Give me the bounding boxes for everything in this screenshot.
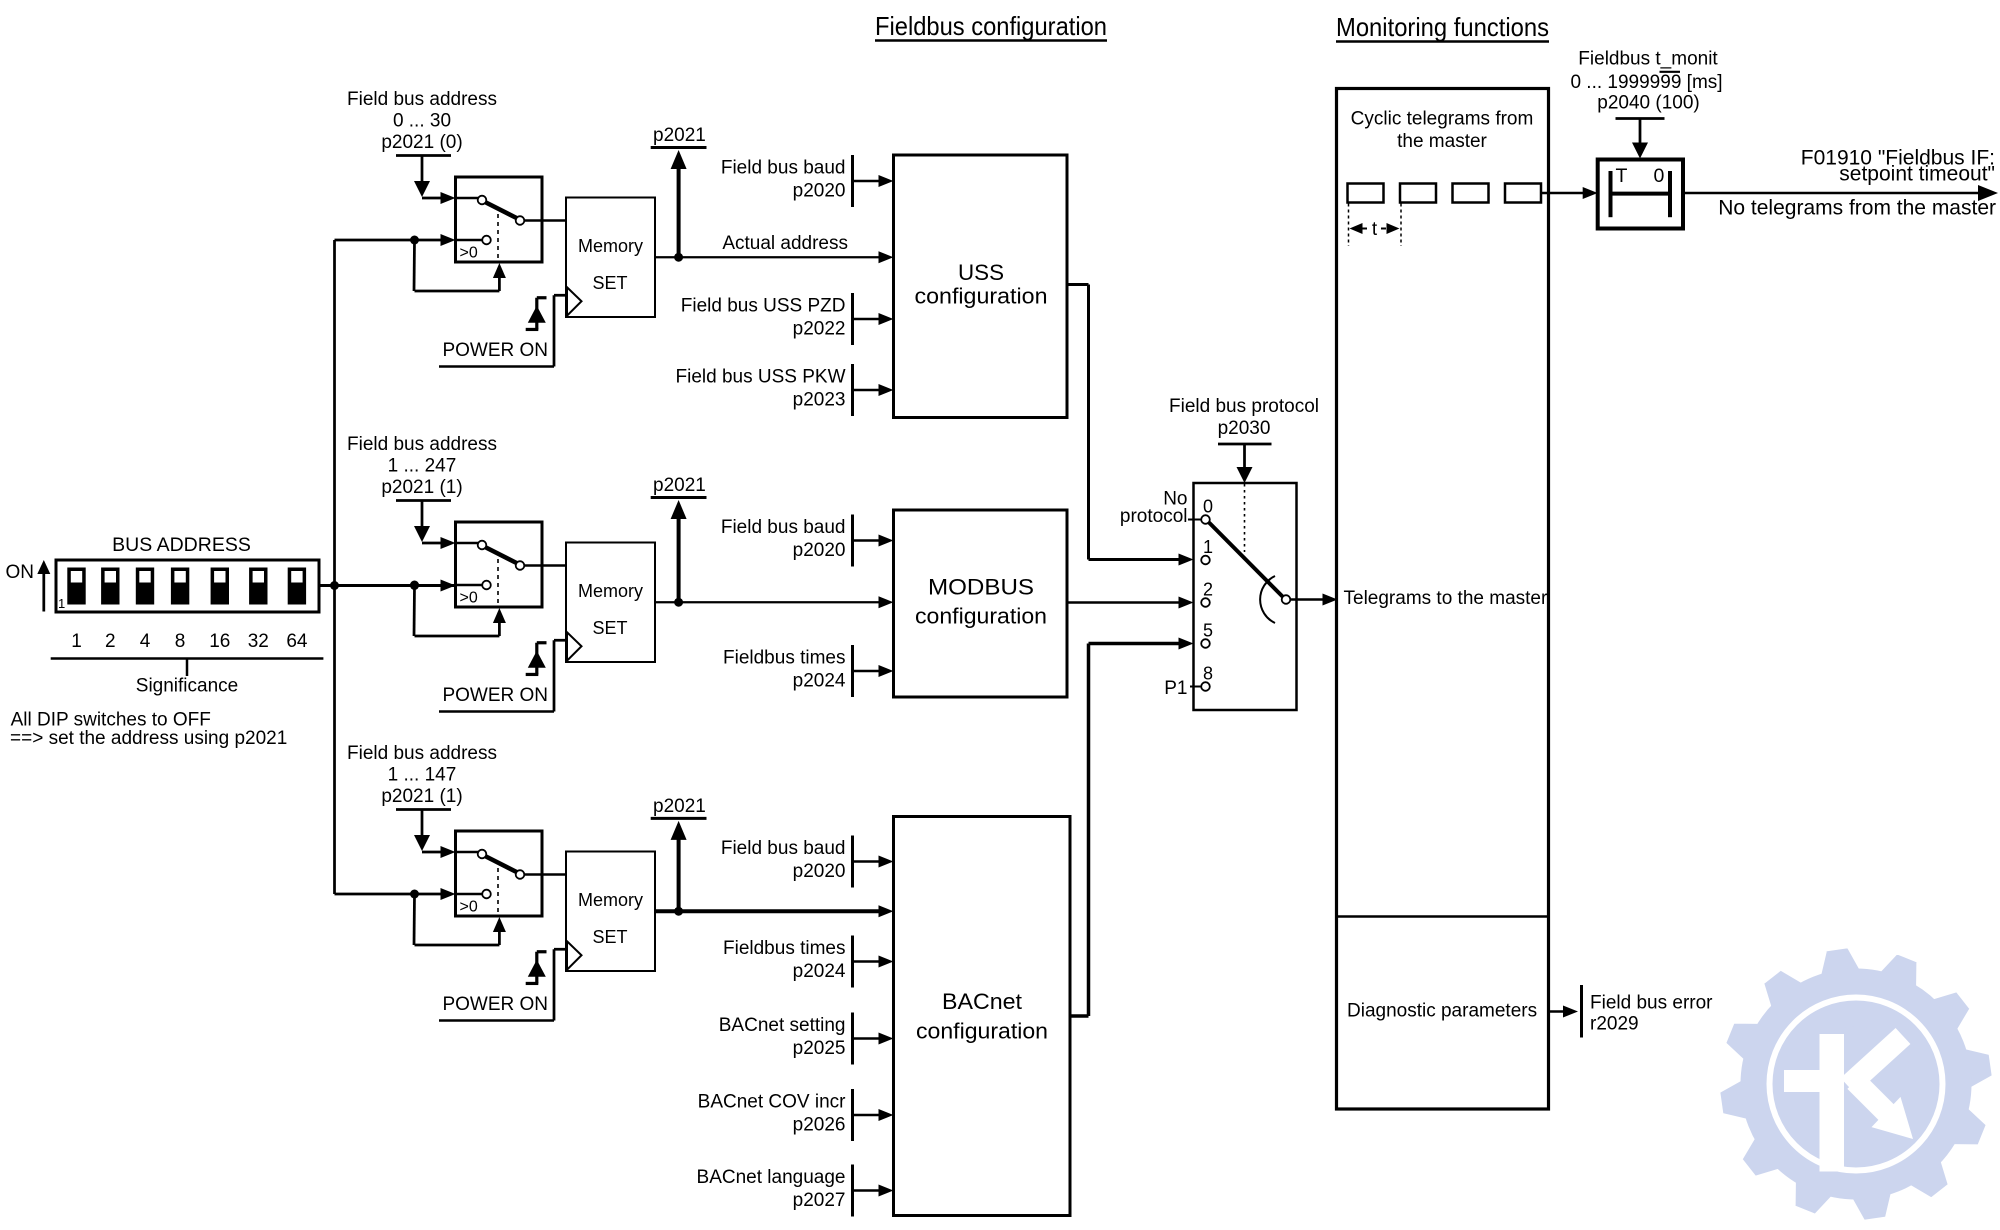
wire selector output to monitoring bbox=[1290, 594, 1337, 606]
node Field-bus-address label 3 bbox=[347, 743, 497, 810]
svg-text:p2025: p2025 bbox=[793, 1038, 846, 1059]
svg-text:p2021 (1): p2021 (1) bbox=[381, 786, 462, 807]
wire MODBUS output to protocol selector pin 2 bbox=[1067, 597, 1194, 609]
svg-text:p2027: p2027 bbox=[793, 1190, 846, 1211]
switch S4 protocol selector box bbox=[1194, 483, 1297, 710]
node Fieldbus t_monit p2040 label bbox=[1570, 49, 1722, 119]
wire DIP output bus bbox=[319, 584, 456, 587]
svg-text:MODBUS: MODBUS bbox=[928, 575, 1034, 600]
svg-text:Memory: Memory bbox=[578, 236, 643, 256]
svg-text:8: 8 bbox=[1203, 664, 1213, 684]
svg-text:1 ... 147: 1 ... 147 bbox=[388, 765, 457, 786]
node p2021 readback label 3 bbox=[651, 796, 707, 818]
node Significance bracket bbox=[51, 659, 324, 697]
node input Field bus USS PKW p2023 bbox=[676, 364, 894, 416]
switch S2 address-source selector bbox=[456, 522, 567, 607]
svg-text:Telegrams to the master: Telegrams to the master bbox=[1344, 588, 1548, 609]
wire p2040 into timer bbox=[1632, 119, 1648, 159]
svg-text:SET: SET bbox=[592, 927, 627, 947]
svg-text:p2020: p2020 bbox=[793, 540, 846, 561]
node input BACnet setting p2025 bbox=[719, 1013, 894, 1065]
switch S3 address-source selector bbox=[456, 831, 567, 916]
svg-text:protocol: protocol bbox=[1120, 506, 1188, 527]
node input Field bus baud p2020 (BACnet) bbox=[721, 836, 894, 888]
svg-text:configuration: configuration bbox=[916, 1019, 1048, 1044]
svg-text:16: 16 bbox=[209, 631, 230, 652]
svg-text:p2020: p2020 bbox=[793, 861, 846, 882]
svg-text:64: 64 bbox=[286, 631, 308, 652]
svg-text:BUS ADDRESS: BUS ADDRESS bbox=[112, 534, 251, 556]
node POWER ON 1 bbox=[439, 295, 566, 366]
wire p2030 into selector bbox=[1237, 444, 1253, 483]
wire control branch POWER-ON set 2 bbox=[414, 585, 506, 636]
svg-text:0 ... 1999999 [ms]: 0 ... 1999999 [ms] bbox=[1570, 72, 1722, 93]
wire timer fault output F01910 bbox=[1683, 185, 1998, 201]
wire bus to subcircuit 3 input bbox=[335, 888, 456, 900]
svg-text:p2024: p2024 bbox=[793, 961, 846, 982]
svg-text:>0: >0 bbox=[460, 245, 478, 262]
svg-text:2: 2 bbox=[1203, 580, 1213, 600]
node No protocol label bbox=[1120, 489, 1201, 528]
svg-text:1: 1 bbox=[1203, 537, 1213, 557]
svg-text:p2021: p2021 bbox=[653, 125, 706, 146]
svg-text:==> set the address using p202: ==> set the address using p2021 bbox=[10, 728, 287, 749]
power rising-edge symbol 1 bbox=[526, 298, 547, 330]
svg-text:configuration: configuration bbox=[915, 604, 1047, 629]
svg-text:BACnet COV incr: BACnet COV incr bbox=[698, 1092, 846, 1113]
node F01910 Fieldbus IF setpoint timeout label bbox=[1801, 147, 1995, 186]
node monitoring divider bbox=[1337, 915, 1549, 918]
junction memory output p2021 2 bbox=[674, 598, 683, 607]
junction control branch 2 bbox=[410, 581, 419, 590]
memory U3 Memory SET block bbox=[566, 852, 655, 972]
block U4 USS configuration bbox=[894, 155, 1068, 418]
svg-text:Significance: Significance bbox=[136, 676, 238, 697]
svg-text:0: 0 bbox=[1654, 165, 1665, 187]
block U7 monitoring functions bbox=[1337, 89, 1549, 1110]
svg-text:BACnet setting: BACnet setting bbox=[719, 1015, 846, 1036]
switch S1 address-source selector bbox=[456, 177, 567, 262]
svg-text:Fieldbus configuration: Fieldbus configuration bbox=[875, 11, 1107, 41]
node Field-bus-address label 2 bbox=[347, 434, 497, 501]
svg-text:Memory: Memory bbox=[578, 890, 643, 910]
svg-text:Field bus baud: Field bus baud bbox=[721, 517, 846, 538]
wire memory 2 output bbox=[655, 596, 894, 608]
node input Field bus USS PZD p2022 bbox=[681, 293, 894, 345]
power rising-edge symbol 2 bbox=[526, 643, 547, 675]
node Diagnostic parameters label bbox=[1347, 1001, 1537, 1022]
junction memory output p2021 3 bbox=[674, 907, 683, 916]
node Field bus error r2029 label bbox=[1590, 993, 1713, 1035]
node p2021 readback label 2 bbox=[651, 475, 707, 498]
junction control branch 1 bbox=[410, 236, 419, 245]
svg-text:configuration: configuration bbox=[915, 284, 1048, 309]
svg-text:p2021: p2021 bbox=[653, 475, 706, 496]
node Monitoring-functions title bbox=[1336, 12, 1549, 42]
svg-text:8: 8 bbox=[175, 631, 186, 652]
svg-text:setpoint timeout": setpoint timeout" bbox=[1839, 163, 1995, 186]
node BUS ADDRESS label bbox=[112, 534, 251, 556]
power rising-edge symbol 3 bbox=[526, 952, 547, 984]
svg-text:USS: USS bbox=[958, 260, 1004, 285]
svg-text:>0: >0 bbox=[460, 590, 478, 607]
wire telegram line to timer bbox=[1541, 187, 1598, 199]
svg-text:4: 4 bbox=[140, 631, 151, 652]
svg-text:T: T bbox=[1616, 165, 1628, 187]
wire p2021 parameter into switch 2 bbox=[414, 501, 456, 550]
junction control branch 3 bbox=[410, 890, 419, 899]
node input Fieldbus times p2024 (MODBUS) bbox=[723, 645, 894, 697]
node Telegrams to the master label bbox=[1344, 588, 1548, 609]
node Field bus protocol p2030 label bbox=[1169, 396, 1319, 444]
node DIP note text bbox=[10, 710, 287, 750]
svg-text:Field bus address: Field bus address bbox=[347, 434, 497, 455]
wire diagnostic output r2029 bbox=[1549, 985, 1582, 1038]
svg-text:Field bus protocol: Field bus protocol bbox=[1169, 396, 1319, 417]
svg-text:Field bus address: Field bus address bbox=[347, 743, 497, 764]
wire p2021 readback up arrow 1 bbox=[671, 150, 687, 257]
node input Field bus baud p2020 (USS) bbox=[721, 155, 894, 207]
wire p2021 parameter into switch 1 bbox=[414, 156, 456, 205]
wire p2021 parameter into switch 3 bbox=[414, 810, 456, 859]
wire USS output to protocol selector pin 1 bbox=[1067, 285, 1194, 566]
svg-text:p2022: p2022 bbox=[793, 319, 846, 340]
svg-text:p2021 (0): p2021 (0) bbox=[381, 132, 462, 153]
svg-text:r2029: r2029 bbox=[1590, 1014, 1639, 1035]
node Cyclic telegrams from the master label bbox=[1351, 109, 1534, 153]
svg-text:>0: >0 bbox=[460, 899, 478, 916]
node input Fieldbus times p2024 (BACnet) bbox=[723, 936, 894, 988]
wire arrow into subcircuit 2 bbox=[441, 580, 456, 592]
svg-text:BACnet language: BACnet language bbox=[697, 1167, 846, 1188]
svg-text:Field bus baud: Field bus baud bbox=[721, 838, 846, 859]
svg-text:1: 1 bbox=[58, 596, 65, 611]
wire p2021 readback up arrow 2 bbox=[671, 500, 687, 602]
svg-text:Diagnostic parameters: Diagnostic parameters bbox=[1347, 1001, 1537, 1022]
node P1 label bbox=[1164, 678, 1201, 699]
timer U8 telegram failure monitor T 0 bbox=[1598, 160, 1683, 229]
svg-text:1: 1 bbox=[71, 631, 82, 652]
wire p2021 readback up arrow 3 bbox=[671, 821, 687, 911]
node input BACnet COV incr p2026 bbox=[698, 1089, 894, 1141]
svg-text:Monitoring functions: Monitoring functions bbox=[1336, 12, 1549, 42]
svg-text:SET: SET bbox=[592, 618, 627, 638]
node POWER ON 3 bbox=[439, 949, 566, 1020]
svg-text:Field bus USS PZD: Field bus USS PZD bbox=[681, 296, 846, 317]
memory U2 Memory SET block bbox=[566, 543, 655, 663]
node input Field bus baud p2020 (MODBUS) bbox=[721, 515, 894, 567]
svg-text:Field bus USS PKW: Field bus USS PKW bbox=[676, 367, 846, 388]
node Actual address label bbox=[722, 233, 848, 254]
svg-text:Field bus baud: Field bus baud bbox=[721, 158, 846, 179]
svg-text:p2021: p2021 bbox=[653, 796, 706, 817]
svg-text:BACnet: BACnet bbox=[942, 989, 1022, 1014]
node significance digits 1 2 4 8 16 32 64 bbox=[71, 631, 308, 652]
svg-text:0 ... 30: 0 ... 30 bbox=[393, 111, 451, 132]
svg-text:t: t bbox=[1372, 219, 1378, 240]
wire BACnet output to protocol selector pin 5 bbox=[1070, 638, 1194, 1017]
svg-text:1 ... 247: 1 ... 247 bbox=[388, 456, 457, 477]
svg-text:Fieldbus times: Fieldbus times bbox=[723, 938, 846, 959]
node ON label with arrow bbox=[6, 560, 51, 612]
svg-text:2: 2 bbox=[105, 631, 116, 652]
node Field-bus-address label 1 bbox=[347, 89, 497, 156]
node input BACnet language p2027 bbox=[697, 1165, 894, 1217]
svg-text:p2021 (1): p2021 (1) bbox=[381, 477, 462, 498]
svg-text:p2026: p2026 bbox=[793, 1115, 846, 1136]
svg-text:Fieldbus t_monit: Fieldbus t_monit bbox=[1578, 49, 1718, 70]
svg-text:Cyclic telegrams from: Cyclic telegrams from bbox=[1351, 109, 1534, 130]
svg-text:Memory: Memory bbox=[578, 581, 643, 601]
svg-text:POWER ON: POWER ON bbox=[442, 994, 548, 1015]
svg-text:POWER ON: POWER ON bbox=[442, 340, 548, 361]
svg-text:0: 0 bbox=[1203, 497, 1213, 517]
wire vertical bus x335 bbox=[333, 240, 336, 894]
watermark gear logo bbox=[1718, 946, 1994, 1222]
svg-text:Actual address: Actual address bbox=[722, 233, 848, 254]
svg-text:5: 5 bbox=[1203, 621, 1213, 641]
junction bus/DIP line bbox=[330, 581, 339, 590]
svg-text:the master: the master bbox=[1397, 131, 1487, 152]
svg-text:32: 32 bbox=[248, 631, 269, 652]
node telegram cycle time t dimension bbox=[1349, 204, 1402, 247]
memory U1 Memory SET block bbox=[566, 198, 655, 318]
wire control branch POWER-ON set 1 bbox=[414, 240, 506, 291]
svg-text:p2024: p2024 bbox=[793, 671, 846, 692]
wire memory 1 output bbox=[655, 251, 894, 263]
svg-text:p2020: p2020 bbox=[793, 181, 846, 202]
node telegram frames bbox=[1348, 184, 1542, 203]
block U6 BACnet configuration bbox=[894, 817, 1071, 1216]
node POWER ON 2 bbox=[439, 640, 566, 711]
svg-text:ON: ON bbox=[6, 562, 35, 583]
svg-text:P1: P1 bbox=[1164, 678, 1187, 699]
junction DIP line control branch bbox=[410, 581, 419, 590]
switch S0 DIP switch block bbox=[56, 560, 319, 612]
svg-text:p2023: p2023 bbox=[793, 390, 846, 411]
svg-text:No telegrams from the master: No telegrams from the master bbox=[1718, 197, 1996, 220]
node No telegrams from the master label bbox=[1718, 197, 1996, 220]
block U5 MODBUS configuration bbox=[894, 510, 1068, 697]
svg-text:p2030: p2030 bbox=[1218, 418, 1271, 439]
pin 1 label inside DIP block bbox=[58, 596, 65, 611]
wire control branch POWER-ON set 3 bbox=[414, 894, 506, 945]
node p2021 readback label 1 bbox=[651, 125, 707, 148]
node Fieldbus-configuration title bbox=[875, 11, 1107, 41]
junction memory output p2021 1 bbox=[674, 253, 683, 262]
svg-text:SET: SET bbox=[592, 273, 627, 293]
svg-text:POWER ON: POWER ON bbox=[442, 685, 548, 706]
wire memory 3 output bbox=[655, 905, 894, 917]
svg-text:Field bus error: Field bus error bbox=[1590, 993, 1713, 1014]
svg-text:Fieldbus times: Fieldbus times bbox=[723, 648, 846, 669]
svg-text:p2040 (100): p2040 (100) bbox=[1597, 93, 1699, 114]
svg-text:Field bus address: Field bus address bbox=[347, 89, 497, 110]
wire bus to subcircuit 1 input bbox=[335, 234, 456, 246]
